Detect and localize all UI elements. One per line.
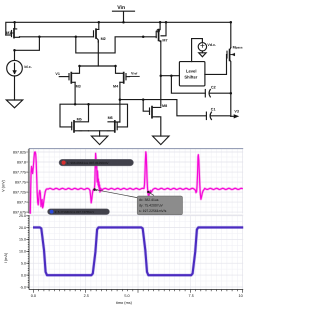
cursor dots <box>93 188 96 191</box>
output node V3 wire and arrow <box>231 115 234 117</box>
svg-text:M2: M2 <box>101 37 106 41</box>
wire C2 branch <box>171 76 205 94</box>
wire M2 drain to tail <box>97 41 99 66</box>
transistor M7 <box>161 22 166 36</box>
svg-text:15.0: 15.0 <box>19 238 26 242</box>
svg-text:Shifter: Shifter <box>184 74 197 79</box>
svg-text:897.7: 897.7 <box>17 200 26 204</box>
svg-text:5.0: 5.0 <box>21 262 26 266</box>
wire M8 gate drop <box>143 100 149 112</box>
svg-text:897.8: 897.8 <box>17 160 26 164</box>
axis ticks <box>26 150 242 293</box>
tooltip 2 (blue) <box>48 209 110 215</box>
wire M3 drain down <box>74 82 76 104</box>
svg-text:time (ms): time (ms) <box>116 301 133 305</box>
svg-text:-5.0: -5.0 <box>20 285 26 289</box>
svg-text:Mpass: Mpass <box>233 46 243 50</box>
tooltip 1 (red) <box>59 159 134 166</box>
wire diff pair tail bar <box>80 65 116 67</box>
svg-text:0.0: 0.0 <box>31 294 36 298</box>
wire top supply rail <box>6 22 231 47</box>
ground under M5/M6 <box>91 136 107 145</box>
waveform I(load) blue <box>33 227 243 275</box>
wire M5/M6 source to ground <box>99 131 101 136</box>
svg-text:Vin: Vin <box>117 5 125 11</box>
svg-text:V3: V3 <box>234 109 239 113</box>
svg-text:5.0: 5.0 <box>124 294 129 298</box>
svg-text:Id.c.: Id.c. <box>24 65 31 69</box>
capacitor C1 <box>205 112 207 119</box>
transistor M4 <box>126 76 130 78</box>
grid major <box>29 149 243 289</box>
svg-text:1: 996.09631us 897.81299mV: 1: 996.09631us 897.81299mV <box>67 161 109 165</box>
svg-text:C1: C1 <box>211 108 216 112</box>
svg-text:0.0: 0.0 <box>21 273 26 277</box>
node dots mirror <box>74 103 77 106</box>
delta tooltip (gray) <box>137 196 182 215</box>
svg-text:Level: Level <box>186 69 196 74</box>
svg-text:7.5: 7.5 <box>189 294 194 298</box>
transistor M2 <box>96 22 99 38</box>
svg-text:Vref: Vref <box>131 72 137 76</box>
level shifter box <box>179 62 205 86</box>
node dots output stage <box>119 98 122 101</box>
transistor M1 <box>6 34 11 36</box>
transistor M5 <box>71 122 73 129</box>
x axis labels <box>31 294 243 305</box>
node dot current source <box>13 49 16 52</box>
svg-text:M7: M7 <box>162 38 167 42</box>
svg-text:2.5: 2.5 <box>84 294 89 298</box>
svg-text:dx: 382.41us: dx: 382.41us <box>139 198 159 202</box>
grid minor <box>29 149 243 289</box>
wire bias rail jog under M2 <box>76 37 156 53</box>
delta tooltip connector lines <box>96 190 154 198</box>
svg-text:M5: M5 <box>77 118 82 122</box>
y axis labels plot1 <box>13 150 26 289</box>
svg-text:M6: M6 <box>108 116 113 120</box>
node Vin supply tap <box>113 11 135 22</box>
node dots bias rail <box>38 36 41 39</box>
plot1 top border <box>29 148 243 150</box>
svg-text:897.775: 897.775 <box>13 170 26 174</box>
wire level shifter output to Mpass gate <box>205 55 227 75</box>
svg-text:V (mV): V (mV) <box>2 179 6 192</box>
wire mirror gate rail M5-M6 <box>60 104 128 127</box>
svg-text:dy: 75.42007uV: dy: 75.42007uV <box>139 204 163 208</box>
node dots tail <box>78 65 81 68</box>
junction dots <box>13 21 232 105</box>
wire to level shifter input <box>161 75 180 77</box>
svg-text:M1: M1 <box>6 31 11 35</box>
transistor M8 <box>149 108 151 114</box>
svg-text:10.0: 10.0 <box>19 250 26 254</box>
transistor M3 <box>59 76 69 78</box>
svg-text:897.75: 897.75 <box>15 180 26 184</box>
svg-text:M8: M8 <box>162 104 167 108</box>
svg-text:897.725: 897.725 <box>13 190 26 194</box>
wire M4/M6 drain (first stage output) <box>119 82 121 122</box>
svg-text:C2: C2 <box>211 86 216 90</box>
wire feedback loop M1 drain to current source <box>15 37 40 61</box>
svg-text:s: 197.22561mV/s: s: 197.22561mV/s <box>139 209 167 213</box>
svg-text:10: 10 <box>238 294 242 298</box>
svg-text:V1: V1 <box>55 72 60 76</box>
wire M7 drain / M8 drain vertical <box>160 41 162 106</box>
ground under M8 <box>153 136 169 145</box>
svg-text:M3: M3 <box>76 85 81 89</box>
current source Id.c. <box>7 60 23 76</box>
voltage source Vd.c. <box>198 43 206 51</box>
svg-text:2: 5.4716864ms 897.73755mV: 2: 5.4716864ms 897.73755mV <box>55 210 95 214</box>
ground under Id.c. <box>6 100 22 108</box>
ground under Vd.c. <box>199 53 206 57</box>
svg-text:897.825: 897.825 <box>13 150 26 154</box>
wire bias rail (M1 drain to M2/M7 gates) <box>20 36 94 38</box>
wire first stage output to M8 gate and C1 <box>120 100 206 116</box>
schematic labels <box>6 5 243 122</box>
plot2 top border <box>29 214 243 216</box>
transistor Mpass <box>226 51 228 58</box>
capacitor C2 <box>204 90 206 97</box>
axes <box>29 149 243 290</box>
svg-text:Vd.c.: Vd.c. <box>207 43 216 47</box>
transistor M6 <box>116 122 118 129</box>
svg-text:I (mA): I (mA) <box>4 252 8 263</box>
svg-text:25.0: 25.0 <box>19 214 26 218</box>
node dots top rail <box>13 21 16 24</box>
svg-text:20.0: 20.0 <box>19 226 26 230</box>
